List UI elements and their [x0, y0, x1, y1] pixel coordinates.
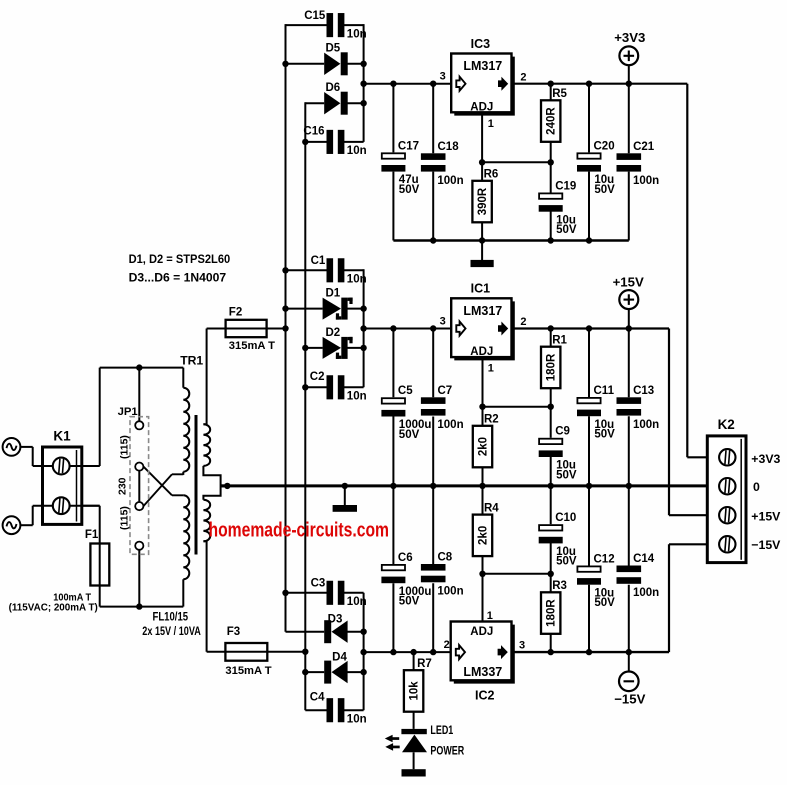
svg-text:2: 2: [520, 316, 526, 328]
svg-text:C13: C13: [633, 385, 654, 397]
svg-text:240R: 240R: [546, 107, 558, 135]
svg-text:3: 3: [519, 640, 525, 652]
svg-text:2k0: 2k0: [478, 526, 490, 545]
svg-text:C10: C10: [555, 512, 576, 524]
svg-text:−15V: −15V: [751, 538, 781, 552]
svg-text:R3: R3: [552, 580, 567, 592]
svg-text:1: 1: [488, 363, 494, 375]
svg-text:ADJ: ADJ: [470, 101, 493, 113]
svg-text:IC3: IC3: [471, 37, 491, 51]
svg-text:TR1: TR1: [180, 353, 203, 367]
svg-text:C18: C18: [438, 141, 460, 153]
svg-text:LM337: LM337: [463, 665, 502, 679]
svg-text:10n: 10n: [347, 391, 367, 403]
svg-text:+15V: +15V: [751, 510, 781, 524]
svg-text:C19: C19: [555, 180, 576, 192]
svg-text:2x 15V / 10VA: 2x 15V / 10VA: [142, 624, 201, 638]
svg-text:C12: C12: [594, 553, 615, 565]
svg-text:R2: R2: [484, 414, 499, 426]
svg-text:50V: 50V: [594, 597, 615, 609]
svg-text:D4: D4: [332, 651, 347, 663]
svg-text:LM317: LM317: [463, 304, 502, 318]
svg-text:R1: R1: [552, 335, 567, 347]
svg-text:D2: D2: [325, 327, 340, 339]
svg-text:50V: 50V: [556, 469, 577, 481]
svg-text:50V: 50V: [556, 556, 577, 568]
svg-text:100n: 100n: [437, 175, 463, 187]
svg-text:D1, D2 = STPS2L60: D1, D2 = STPS2L60: [129, 252, 231, 266]
svg-text:0: 0: [753, 480, 760, 494]
svg-text:10n: 10n: [347, 145, 367, 157]
svg-text:IC2: IC2: [475, 689, 495, 703]
svg-text:JP1: JP1: [118, 406, 138, 418]
svg-text:R5: R5: [552, 88, 567, 100]
svg-text:C3: C3: [311, 578, 326, 590]
svg-text:100n: 100n: [633, 419, 659, 431]
svg-text:D6: D6: [325, 82, 340, 94]
svg-text:homemade-circuits.com: homemade-circuits.com: [209, 519, 390, 541]
svg-text:K2: K2: [718, 417, 735, 432]
svg-text:50V: 50V: [399, 596, 420, 608]
svg-text:C14: C14: [633, 553, 655, 565]
svg-text:2: 2: [520, 71, 526, 83]
svg-text:F3: F3: [227, 626, 240, 638]
svg-text:100n: 100n: [633, 587, 659, 599]
svg-text:10k: 10k: [409, 681, 421, 701]
svg-text:3: 3: [440, 315, 446, 327]
svg-text:C15: C15: [304, 10, 326, 22]
svg-text:50V: 50V: [399, 184, 420, 196]
svg-text:C6: C6: [398, 552, 413, 564]
svg-text:D3: D3: [328, 614, 343, 626]
svg-text:C2: C2: [310, 371, 325, 383]
svg-text:10n: 10n: [347, 714, 367, 726]
svg-text:C1: C1: [311, 255, 326, 267]
svg-text:−15V: −15V: [614, 692, 645, 707]
svg-text:D1: D1: [325, 288, 340, 300]
svg-text:50V: 50V: [556, 224, 577, 236]
svg-text:1: 1: [487, 610, 493, 622]
svg-text:3: 3: [440, 71, 446, 83]
svg-text:2k0: 2k0: [478, 437, 490, 456]
svg-text:390R: 390R: [477, 187, 489, 215]
svg-text:C21: C21: [633, 141, 655, 153]
svg-text:F2: F2: [229, 307, 242, 319]
svg-text:C9: C9: [555, 426, 570, 438]
svg-text:C16: C16: [303, 126, 324, 138]
svg-text:C20: C20: [594, 140, 615, 152]
svg-text:+15V: +15V: [613, 275, 644, 290]
svg-text:315mA T: 315mA T: [229, 340, 275, 352]
svg-text:LM317: LM317: [463, 59, 502, 73]
svg-text:180R: 180R: [546, 599, 558, 627]
svg-text:IC1: IC1: [471, 282, 491, 296]
svg-text:F1: F1: [85, 529, 99, 541]
svg-text:ADJ: ADJ: [470, 346, 493, 358]
svg-text:C5: C5: [398, 385, 413, 397]
svg-text:10n: 10n: [347, 596, 367, 608]
svg-text:+3V3: +3V3: [751, 452, 780, 466]
svg-text:50V: 50V: [594, 184, 615, 196]
svg-text:K1: K1: [53, 429, 71, 444]
svg-text:100n: 100n: [633, 175, 659, 187]
svg-text:315mA T: 315mA T: [225, 665, 271, 677]
svg-text:C11: C11: [594, 385, 615, 397]
svg-text:C4: C4: [310, 691, 325, 703]
svg-text:(115): (115): [119, 435, 131, 459]
svg-text:R4: R4: [484, 502, 499, 514]
svg-text:FL10/15: FL10/15: [153, 610, 189, 624]
svg-text:D3...D6 = 1N4007: D3...D6 = 1N4007: [129, 271, 227, 285]
svg-text:180R: 180R: [546, 353, 558, 381]
svg-text:C7: C7: [438, 385, 453, 397]
svg-text:ADJ: ADJ: [470, 626, 493, 638]
svg-text:50V: 50V: [594, 429, 615, 441]
svg-text:(115): (115): [119, 506, 131, 530]
svg-text:1: 1: [488, 118, 494, 130]
svg-text:R7: R7: [417, 658, 432, 670]
svg-text:(115VAC; 200mA T): (115VAC; 200mA T): [9, 603, 98, 614]
svg-text:10n: 10n: [347, 274, 367, 286]
svg-text:LED1: LED1: [430, 723, 453, 737]
svg-text:D5: D5: [325, 43, 340, 55]
svg-text:POWER: POWER: [430, 744, 464, 758]
svg-text:2: 2: [444, 639, 450, 651]
svg-text:230: 230: [117, 477, 129, 495]
svg-text:100n: 100n: [437, 586, 463, 598]
svg-text:50V: 50V: [399, 429, 420, 441]
svg-text:C8: C8: [438, 552, 453, 564]
svg-text:10n: 10n: [347, 28, 367, 40]
svg-text:+3V3: +3V3: [614, 30, 645, 45]
svg-text:100n: 100n: [437, 419, 463, 431]
svg-text:C17: C17: [398, 140, 419, 152]
svg-text:R6: R6: [484, 169, 499, 181]
